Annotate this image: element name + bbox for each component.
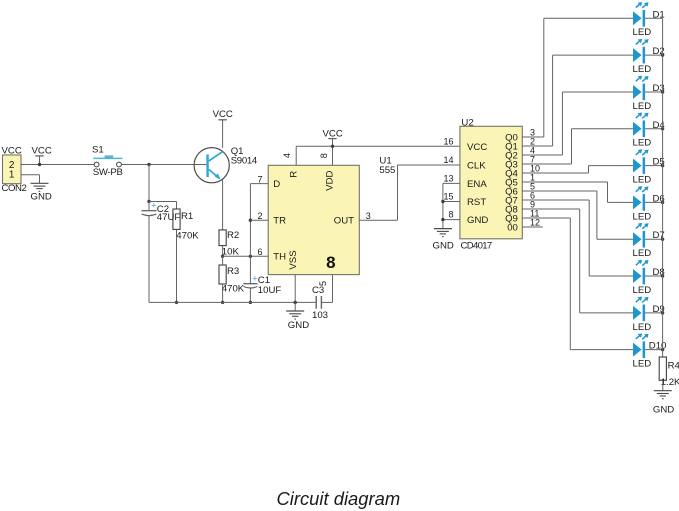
svg-text:LED: LED [633, 248, 652, 259]
resistor R2 10K [219, 230, 239, 258]
svg-text:LED: LED [633, 359, 652, 370]
svg-text:TR: TR [273, 216, 286, 227]
svg-text:CON2: CON2 [2, 183, 27, 194]
svg-text:VDD: VDD [324, 171, 335, 191]
junction TH / C1 bus [249, 255, 252, 258]
svg-text:RST: RST [467, 197, 486, 208]
svg-text:470K: 470K [176, 230, 199, 241]
junction VCC stem [331, 145, 334, 148]
power symbol VCC at Q1 collector [213, 109, 233, 148]
junction C2 / R1 [147, 200, 150, 203]
wire U2 Q4 (pin 10) to LED D5 [522, 166, 633, 173]
wire Q1 emitter to R2 [222, 179, 224, 230]
ground GND below 555 [286, 302, 309, 330]
svg-text:CLK: CLK [467, 161, 486, 172]
label CD4017 [461, 240, 492, 251]
svg-text:VCC: VCC [213, 109, 233, 120]
label U2 [461, 117, 473, 128]
pin number 7 [257, 174, 262, 184]
svg-text:8: 8 [319, 153, 329, 158]
svg-text:LED: LED [633, 285, 652, 296]
svg-text:47UF: 47UF [157, 212, 181, 223]
wire U2 Q8 (pin 9) to LED D9 [522, 209, 633, 313]
wire 555 OUT to U2 CLK [359, 165, 460, 220]
LED D6 [633, 186, 665, 222]
wire R4 to ground [662, 380, 664, 390]
wire feedback bus D/TR/TH [249, 184, 251, 284]
pin number 2 [257, 211, 262, 221]
pin number 3 [366, 211, 371, 221]
junction LED D2 cathode / rail [661, 53, 664, 56]
power symbol VCC above 555 [323, 128, 343, 146]
svg-text:S9014: S9014 [231, 155, 258, 166]
svg-text:ENA: ENA [467, 179, 487, 190]
svg-text:VCC: VCC [2, 146, 22, 157]
svg-text:15: 15 [443, 192, 453, 202]
IC U2 CD4017 body [460, 126, 522, 239]
junction LED D8 cathode / rail [661, 274, 664, 277]
LED D10 [633, 333, 667, 369]
resistor R1 470K [173, 209, 199, 241]
junction LED D7 cathode / rail [661, 238, 664, 241]
pin number 10 (U2 right) [530, 164, 540, 174]
wire U2 Q2 (pin 4) to LED D3 [522, 92, 633, 155]
svg-text:R2: R2 [227, 230, 239, 241]
pin number 5 (U2 right) [530, 182, 535, 192]
svg-text:LED: LED [633, 322, 652, 333]
svg-text:GND: GND [31, 192, 52, 203]
svg-text:LED: LED [633, 174, 652, 185]
junction R2/R3/TH [221, 255, 224, 258]
wire C2 branch down [148, 165, 150, 202]
svg-text:R1: R1 [181, 211, 193, 222]
svg-text:SW-PB: SW-PB [93, 167, 123, 178]
svg-text:OUT: OUT [334, 216, 354, 227]
svg-text:1: 1 [9, 170, 15, 181]
pin number 12 (U2 right) [530, 218, 540, 228]
svg-text:Circuit diagram: Circuit diagram [277, 488, 401, 509]
switch S1 SW-PB [92, 144, 123, 178]
svg-text:5: 5 [318, 281, 328, 286]
svg-text:VCC: VCC [323, 128, 343, 139]
svg-text:12: 12 [530, 218, 540, 228]
junction LED D9 cathode / rail [661, 311, 664, 314]
junction LED D10 cathode / rail [661, 348, 664, 351]
label U1 555 [379, 156, 395, 177]
wire 555 pin8 stem [332, 146, 334, 165]
svg-text:2: 2 [257, 211, 262, 221]
svg-text:GND: GND [288, 320, 309, 331]
svg-text:GND: GND [653, 404, 674, 415]
LED D9 [633, 297, 665, 333]
svg-text:LED: LED [633, 27, 652, 38]
ground GND at CON2 [31, 183, 52, 202]
wire U2 Q1 (pin 2) to LED D2 [522, 55, 633, 146]
wire U2 Q6 (pin 5) to LED D7 [522, 191, 633, 239]
power net label VCC at CON2 [2, 146, 22, 157]
pin number 14 (U2 left) [443, 155, 453, 165]
pin number 8 (U2 left) [448, 210, 453, 220]
pin number 3 (U2 right) [530, 128, 535, 138]
wire R2 bottom to TH row [222, 246, 224, 257]
junction VCC stem on input rail [38, 163, 41, 166]
wire VCC rail to U2 pin16 [296, 145, 460, 147]
resistor R3 470K [219, 265, 245, 295]
pin number 6 [257, 247, 262, 257]
svg-text:6: 6 [257, 247, 262, 257]
ground GND below U2 [433, 229, 454, 252]
LED cathode rail wire [662, 18, 664, 357]
wire CON2 pin2 to switch [21, 164, 94, 166]
pin number 15 (U2 left) [443, 192, 453, 202]
junction GND row [441, 218, 444, 221]
svg-text:GND: GND [433, 240, 454, 251]
wire switch to transistor base [121, 164, 194, 166]
LED D8 [633, 260, 665, 296]
svg-text:CD4017: CD4017 [461, 240, 492, 251]
svg-text:16: 16 [443, 136, 453, 146]
svg-text:103: 103 [312, 310, 328, 321]
wire TH row to 555 pin 6 [223, 255, 269, 257]
svg-text:3: 3 [366, 211, 371, 221]
capacitor C2 47UF electrolytic [142, 201, 181, 303]
svg-text:14: 14 [443, 155, 453, 165]
wire to 555 pin 7 D [250, 183, 268, 185]
pin number 6 (U2 right) [530, 191, 535, 201]
capacitor C3 103 [312, 275, 333, 321]
junction bus / TR row [249, 219, 252, 222]
svg-text:VSS: VSS [288, 250, 299, 269]
svg-text:+: + [252, 274, 257, 284]
svg-text:D: D [273, 179, 280, 190]
junction LED D5 cathode / rail [661, 164, 664, 167]
wire to R1 top [149, 202, 177, 210]
svg-text:GND: GND [467, 215, 488, 226]
junction VSS / ground rail [294, 301, 297, 304]
connector CON2 [2, 155, 27, 194]
power symbol VCC (bar) on input rail [32, 146, 52, 165]
pin number 1 (U2 right) [530, 173, 535, 183]
wire U2 Q3 (pin 7) to LED D4 [522, 129, 633, 164]
wire U2 Q9 (pin 11) to LED D10 [522, 218, 633, 350]
wire U2 pin 12 stub [522, 226, 543, 228]
svg-text:VCC: VCC [32, 146, 52, 157]
svg-text:LED: LED [633, 138, 652, 149]
svg-text:10UF: 10UF [258, 285, 282, 296]
pin number 9 (U2 right) [530, 200, 535, 210]
caption Circuit diagram [277, 488, 401, 509]
junction R1 / ground rail [175, 301, 178, 304]
wire R1 bottom to ground rail [176, 229, 178, 302]
LED D1 [633, 2, 665, 38]
svg-text:00: 00 [507, 223, 518, 234]
junction at C2 branch [147, 163, 150, 166]
wire U2 Q7 (pin 6) to LED D8 [522, 200, 633, 276]
pin number 16 (U2 left) [443, 136, 453, 146]
svg-text:7: 7 [257, 174, 262, 184]
svg-text:+: + [151, 201, 156, 211]
svg-text:13: 13 [443, 174, 453, 184]
junction RST row [441, 200, 444, 203]
svg-text:U2: U2 [461, 117, 473, 128]
svg-text:LED: LED [633, 211, 652, 222]
svg-text:470K: 470K [222, 284, 245, 295]
svg-text:S1: S1 [92, 144, 104, 155]
LED D7 [633, 223, 665, 259]
transistor Q1 S9014 NPN [194, 146, 258, 183]
svg-text:555: 555 [379, 165, 395, 176]
wire U2 Q5 (pin 1) to LED D6 [522, 182, 633, 202]
pin number 13 (U2 left) [443, 174, 453, 184]
wire to 555 pin 2 TR [250, 219, 268, 221]
svg-text:LED: LED [633, 64, 652, 75]
svg-text:R3: R3 [227, 266, 239, 277]
svg-text:8: 8 [448, 210, 453, 220]
svg-text:R4: R4 [668, 360, 679, 371]
LED D2 [633, 39, 665, 75]
pin number 7 (U2 right) [530, 155, 535, 165]
op-amp/timer U1 555 body [268, 165, 359, 274]
wire CON2 pin1 to ground [21, 175, 40, 184]
pin number 11 (U2 right) [530, 209, 539, 219]
svg-text:VCC: VCC [467, 142, 487, 153]
wire R3 leads [222, 256, 224, 302]
pin number 2 (U2 right) [530, 137, 535, 147]
wire U2 Q0 (pin 3) to LED D1 [522, 18, 633, 137]
wire 555 VSS to ground [294, 275, 296, 303]
junction C1 / ground rail [249, 301, 252, 304]
svg-text:4: 4 [282, 153, 292, 158]
svg-text:1.2K: 1.2K [661, 377, 679, 388]
junction R3 / ground rail [221, 301, 224, 304]
svg-text:8: 8 [326, 253, 335, 272]
LED D4 [633, 112, 666, 148]
junction LED D4 cathode / rail [661, 127, 664, 130]
capacitor C1 10UF electrolytic [243, 274, 281, 303]
svg-text:TH: TH [273, 252, 286, 263]
resistor R4 1.2K [659, 357, 679, 388]
LED D5 [633, 149, 665, 185]
LED D3 [633, 76, 665, 112]
pin number 4 (U2 right) [530, 146, 535, 156]
ground rail wire [149, 301, 316, 303]
junction LED D3 cathode / rail [661, 90, 664, 93]
svg-text:R: R [288, 171, 299, 178]
ground GND below R4 [653, 391, 674, 416]
wire 555 pin4 stem [295, 146, 297, 165]
svg-text:LED: LED [633, 101, 652, 112]
junction LED D6 cathode / rail [661, 201, 664, 204]
wire U2 ENA bus to ground [443, 183, 460, 228]
